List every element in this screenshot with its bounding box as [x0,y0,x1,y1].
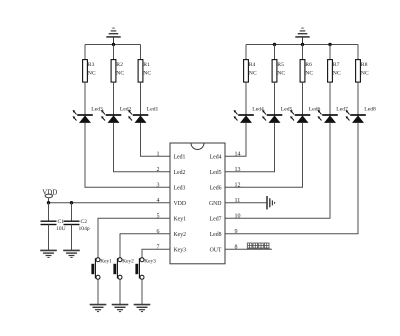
junction [112,43,115,46]
svg-text:2: 2 [157,167,160,173]
resistor R1 (NC) [138,60,151,83]
svg-text:9: 9 [235,229,238,235]
svg-text:Led4: Led4 [210,155,222,161]
net label on OUT pin 8 (motor output, CJK glyph blocks) [247,243,270,249]
wire [245,45,247,60]
ground (earth on GND pin 11, pointing right) [267,196,275,209]
ground (under Key3) [134,305,151,312]
svg-text:VDD: VDD [42,188,57,196]
wire [225,123,246,156]
resistor R7 (NC) [328,60,341,83]
ground (under Key1) [90,305,107,312]
svg-text:R5: R5 [277,62,284,68]
resistor R5 (NC) [272,60,285,83]
LED Led2 [101,107,131,123]
wire [48,203,50,221]
LED Led7 [318,107,348,123]
svg-text:C2: C2 [81,219,88,225]
svg-text:Led8: Led8 [364,107,376,113]
ground (under C1) [40,250,57,257]
junction [301,43,304,46]
junction [47,201,50,204]
wire [302,82,304,115]
wire [225,248,272,250]
wire [225,123,358,234]
wire [329,45,331,60]
svg-text:104p: 104p [79,226,90,232]
svg-text:Led4: Led4 [252,107,264,113]
pushbutton switch Key1 [91,258,112,280]
svg-text:C1: C1 [58,219,65,225]
svg-text:Key3: Key3 [144,259,156,265]
capacitor C2 104p [64,219,90,232]
svg-text:Key1: Key1 [100,259,112,265]
svg-text:Led3: Led3 [174,186,186,192]
svg-text:Led8: Led8 [210,232,222,238]
wire [140,45,142,60]
ground (under C2) [63,250,80,257]
svg-text:NC: NC [333,70,341,76]
svg-text:R1: R1 [143,62,150,68]
wire [114,123,171,172]
capacitor C1 10U [41,219,66,232]
wire [71,203,73,221]
resistor R8 (NC) [356,60,369,83]
svg-text:Led7: Led7 [210,217,222,223]
wire [141,279,143,304]
wire [119,279,121,304]
ground (earth, top-left) [106,28,120,44]
LED Led1 [128,107,158,123]
svg-text:Led3: Led3 [91,107,103,113]
LED Led3 [73,107,103,123]
svg-text:NC: NC [249,70,257,76]
junction [70,201,73,204]
IC U1 (14-pin DIP body with pin names) [170,143,225,264]
pushbutton switch Key2 [113,258,134,280]
wire [274,82,276,115]
svg-text:NC: NC [143,70,151,76]
wire [141,123,171,156]
svg-text:Led6: Led6 [210,186,222,192]
svg-text:1: 1 [157,151,160,157]
svg-text:Led1: Led1 [174,155,186,161]
wire [120,234,170,258]
wire [71,225,73,251]
resistor R2 (NC) [111,60,124,83]
svg-text:14: 14 [235,151,241,157]
wire [49,202,171,204]
wire [225,123,303,187]
svg-text:13: 13 [235,167,241,173]
wire [225,123,275,172]
svg-text:OUT: OUT [210,248,222,254]
wire [113,45,115,60]
svg-text:R2: R2 [116,62,123,68]
svg-text:12: 12 [235,182,241,188]
svg-text:GND: GND [209,201,222,207]
resistor R4 (NC) [244,60,257,83]
svg-text:R8: R8 [361,62,368,68]
wire [245,82,247,115]
svg-text:R6: R6 [305,62,312,68]
LED Led8 [346,107,376,123]
wire [113,82,115,115]
LED Led4 [234,107,264,123]
pin number labels [157,151,241,250]
svg-text:NC: NC [305,70,313,76]
wire [357,45,359,60]
wire [329,82,331,115]
junction [273,43,276,46]
svg-text:NC: NC [277,70,285,76]
pushbutton switch Key3 [135,258,156,280]
wire [85,123,170,187]
svg-text:Key3: Key3 [174,248,187,254]
wire [84,45,86,60]
svg-text:Led5: Led5 [210,170,222,176]
svg-text:10U: 10U [56,226,66,232]
svg-text:Key1: Key1 [174,217,187,223]
LED Led6 [290,107,320,123]
svg-text:NC: NC [88,70,96,76]
svg-text:Led1: Led1 [147,107,159,113]
svg-text:R3: R3 [88,62,95,68]
wire [98,218,170,258]
svg-text:R7: R7 [333,62,340,68]
power VDD [42,188,57,202]
wire [84,82,86,115]
svg-text:Led2: Led2 [174,170,186,176]
svg-text:Key2: Key2 [174,232,187,238]
svg-text:NC: NC [116,70,124,76]
wire [246,44,358,46]
wire [48,225,50,251]
wire [357,82,359,115]
wire [97,279,99,304]
wire [274,45,276,60]
wire [225,202,267,204]
svg-text:VDD: VDD [174,201,187,207]
svg-text:3: 3 [157,182,160,188]
resistor R3 (NC) [83,60,96,83]
ground (under Key2) [112,305,129,312]
resistor R6 (NC) [300,60,313,83]
junction [328,43,331,46]
wire [142,249,170,258]
wire [85,44,141,46]
wire [302,45,304,60]
svg-text:NC: NC [361,70,369,76]
svg-text:R4: R4 [249,62,256,68]
ground (earth, top-right) [295,28,309,44]
LED Led5 [262,107,292,123]
svg-text:10: 10 [235,213,241,219]
wire [140,82,142,115]
wire [225,123,330,218]
svg-text:Key2: Key2 [122,259,134,265]
